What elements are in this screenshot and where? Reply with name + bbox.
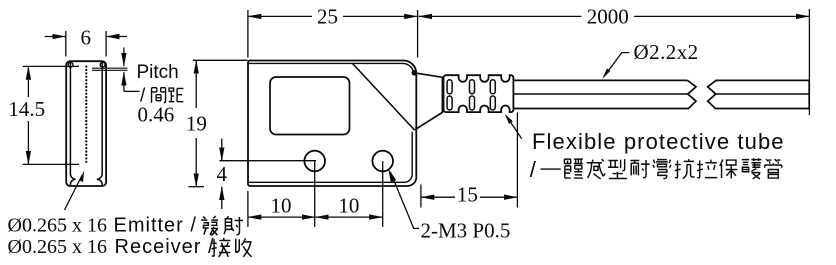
leader diameter bbox=[605, 53, 630, 76]
svg-text:2-M3 P0.5: 2-M3 P0.5 bbox=[421, 219, 511, 243]
char wan bbox=[653, 160, 671, 179]
svg-text:Ø0.265 x 16: Ø0.265 x 16 bbox=[8, 236, 107, 258]
hole 1 stem bbox=[314, 161, 316, 227]
dim 19 lower arrow bbox=[195, 138, 197, 187]
dim 10 extension lines bbox=[247, 191, 249, 227]
char kang bbox=[675, 159, 695, 178]
dim 6 right arrow bbox=[106, 36, 127, 38]
dim 25 extension lines bbox=[248, 10, 418, 58]
svg-text:19: 19 bbox=[186, 112, 207, 136]
dim 4 upper arrow bbox=[221, 139, 223, 161]
flexible tube outline bbox=[444, 75, 514, 112]
pitch reference double lines bbox=[92, 68, 128, 70]
body chamfer diagonal bbox=[352, 63, 414, 130]
hole 1 bbox=[304, 151, 325, 172]
fiber head outer body (left view) bbox=[66, 61, 106, 186]
cable break right zigzag bbox=[708, 80, 716, 108]
char hu bbox=[742, 158, 761, 179]
char jian bbox=[152, 88, 166, 103]
holes centerline bbox=[220, 160, 317, 162]
dim 6 left arrow bbox=[45, 36, 66, 38]
dim 2000 left arrow bbox=[419, 15, 582, 17]
dim 2000 right arrow bbox=[634, 15, 809, 17]
svg-text:25: 25 bbox=[317, 4, 338, 28]
cable break left zigzag bbox=[688, 80, 697, 108]
tube slots column 3 bbox=[490, 80, 495, 94]
dim 15 right arrow bbox=[480, 196, 517, 198]
hole 2 stem bbox=[382, 161, 384, 227]
boot taper bbox=[414, 73, 442, 130]
pitch lower arrow with elbow bbox=[124, 90, 140, 92]
char ti bbox=[564, 159, 582, 178]
svg-text:10: 10 bbox=[338, 193, 359, 217]
leader fiber end bbox=[65, 175, 83, 210]
fiber array dotted line bbox=[85, 67, 87, 166]
char xing bbox=[608, 159, 627, 178]
char la bbox=[697, 160, 717, 178]
dim 19 top extension line bbox=[193, 59, 248, 61]
svg-text:4: 4 bbox=[217, 162, 228, 186]
tube slots column 1 bbox=[447, 80, 452, 94]
dim 10b arrows bbox=[315, 216, 349, 218]
char shou bbox=[236, 238, 252, 256]
dim 2000 right extension line bbox=[808, 9, 810, 115]
dim 6 extension lines bbox=[66, 31, 106, 57]
svg-text:Pitch: Pitch bbox=[137, 62, 179, 83]
char ju bbox=[169, 88, 184, 102]
dim 4 lower arrow bbox=[221, 187, 223, 209]
svg-text:Receiver /: Receiver / bbox=[115, 236, 215, 258]
body window bbox=[270, 77, 350, 135]
leader flexible tube bbox=[509, 120, 522, 139]
fiber head inner left wall with notch bbox=[70, 63, 75, 186]
svg-text:14.5: 14.5 bbox=[8, 97, 45, 121]
pitch upper arrow bbox=[123, 48, 125, 67]
tube slots column 2 bbox=[470, 80, 475, 94]
svg-text:Ø2.2x2: Ø2.2x2 bbox=[634, 40, 699, 64]
svg-text:Ø0.265 x 16: Ø0.265 x 16 bbox=[8, 214, 107, 236]
sensor body outline bbox=[248, 60, 416, 186]
dim 15 extension lines bbox=[421, 113, 518, 208]
svg-text:2000: 2000 bbox=[587, 4, 629, 28]
dim 15 left arrow bbox=[421, 196, 455, 198]
dim 10a arrows bbox=[248, 216, 281, 218]
char guan bbox=[765, 159, 782, 178]
dim 19 upper arrow bbox=[195, 60, 197, 108]
char fa bbox=[201, 216, 218, 235]
fiber head top-right corner hole bbox=[100, 62, 105, 67]
cable middle line bbox=[513, 93, 809, 95]
char jie2 bbox=[211, 238, 230, 257]
cable bottom line bbox=[513, 108, 809, 110]
hole 2 bbox=[372, 151, 393, 172]
svg-text:15: 15 bbox=[457, 183, 478, 207]
cable right end bbox=[808, 80, 810, 108]
junction dot bbox=[412, 70, 417, 75]
char nai bbox=[630, 160, 649, 178]
svg-text:Emitter /: Emitter / bbox=[114, 214, 197, 236]
fiber head top-left corner hole bbox=[68, 62, 73, 67]
svg-text:0.46: 0.46 bbox=[138, 103, 175, 127]
body inner top line bbox=[249, 63, 414, 72]
dim 25 right arrow bbox=[343, 15, 418, 17]
leader 2-M3 bbox=[391, 172, 419, 228]
svg-text:10: 10 bbox=[271, 193, 292, 217]
svg-text:Flexible protective tube: Flexible protective tube bbox=[532, 129, 785, 154]
body inner bottom line bbox=[249, 132, 412, 182]
char cheng bbox=[587, 159, 605, 179]
dim 14.5 extension lines bbox=[23, 66, 79, 164]
cable top line bbox=[513, 79, 809, 81]
dim 19 bottom tick bbox=[189, 186, 205, 188]
dim 25 left arrow bbox=[248, 15, 312, 17]
char she bbox=[224, 216, 243, 235]
char yi bbox=[541, 166, 561, 172]
dim 14.5 upper arrow bbox=[27, 66, 29, 97]
svg-text:6: 6 bbox=[81, 26, 92, 50]
fiber head inner right wall with notch bbox=[97, 63, 102, 186]
char bao bbox=[720, 160, 738, 179]
dim 14.5 lower arrow bbox=[27, 121, 29, 164]
svg-text:/: / bbox=[530, 157, 537, 182]
